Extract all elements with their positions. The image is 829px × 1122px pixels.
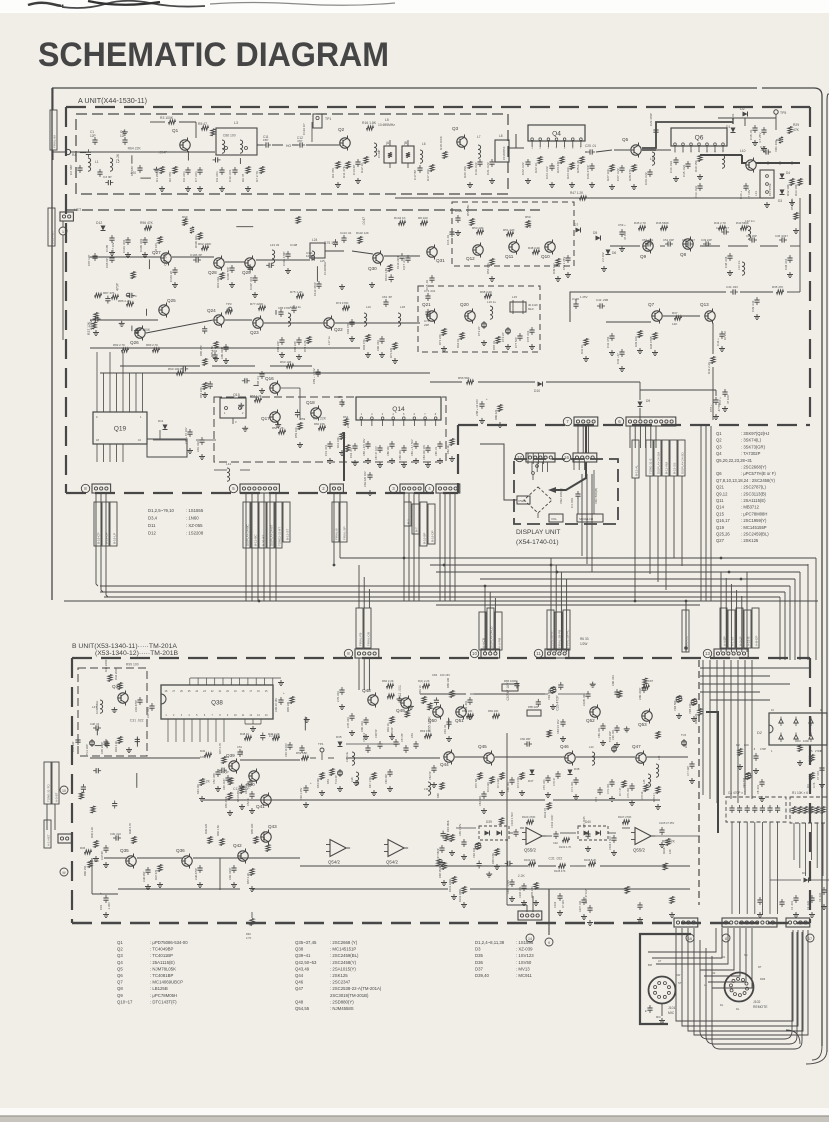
svg-text:.047: .047 [341, 400, 345, 406]
capacitor C87b .0047 [641, 687, 646, 689]
svg-text:Q44: Q44 [440, 762, 449, 767]
squelch grounds [351, 730, 353, 733]
transistor Q51 [456, 707, 466, 717]
vlabel FINAL-SP [340, 502, 347, 542]
capacitor C90b .001 [614, 727, 619, 729]
capacitor C40 .0047 [231, 867, 236, 869]
coil L2 [110, 158, 113, 171]
resistor R50 470K [228, 793, 232, 800]
svg-text:11: 11 [536, 651, 541, 656]
svg-text:C40 .033: C40 .033 [726, 285, 738, 289]
svg-text:R79 33: R79 33 [640, 791, 644, 800]
wire conn8 pin3 run [106, 493, 108, 597]
capacitor C48b .0047 [225, 777, 230, 779]
capacitor C86 100 [389, 443, 394, 445]
svg-text:Q1: Q1 [172, 128, 179, 133]
wire conn2 down [333, 493, 335, 565]
wire sig row [90, 757, 200, 759]
resistor R81 220 [203, 383, 207, 390]
capacitor C8 .001 [759, 781, 764, 783]
svg-text:C26 470P: C26 470P [556, 695, 560, 711]
B left lower clutter [112, 803, 117, 805]
resistor R53b [330, 769, 334, 776]
capacitor C43 47 [619, 351, 624, 353]
capacitor C46 30P [751, 237, 753, 242]
svg-text:47 10V: 47 10V [623, 231, 627, 240]
bus junction dots [484, 585, 487, 588]
svg-text:C29 470P: C29 470P [649, 113, 653, 126]
wire junction B [685, 601, 687, 652]
capacitor C51a 4.7 25V [761, 129, 766, 131]
svg-text:D6: D6 [612, 251, 616, 255]
test point TP5 [774, 110, 778, 114]
A unit dashed step [457, 425, 459, 493]
capacitor C63 220 16V [367, 474, 372, 476]
capacitor C41 .056 [609, 335, 614, 337]
svg-text:C104: C104 [553, 901, 557, 908]
coil L1 [88, 158, 91, 171]
resistor R82 2.7K [122, 348, 129, 352]
connector 7 [574, 417, 598, 426]
q39 grounds [217, 786, 219, 789]
capacitor C17 8P [417, 167, 422, 169]
bold supply right [706, 712, 718, 833]
vlabel A-1-ST [728, 610, 735, 648]
svg-text:L16 1u: L16 1u [487, 300, 496, 304]
svg-text:TP1: TP1 [318, 742, 324, 746]
diode D38 [568, 770, 573, 775]
svg-text:TC6: TC6 [681, 733, 687, 737]
svg-text:RA: RA [72, 153, 77, 157]
display bold wire [585, 426, 587, 453]
svg-text:DW: DW [676, 973, 681, 977]
resistor R37 12K [675, 316, 682, 320]
svg-text:R75 1.2K: R75 1.2K [290, 290, 303, 294]
svg-text:R33 10K: R33 10K [794, 184, 798, 196]
resistor R86 2.2K [127, 302, 134, 306]
resistor R81b 1K [422, 697, 426, 704]
RF shield dashed box [76, 114, 508, 194]
svg-text:C31 .022: C31 .022 [130, 719, 144, 723]
capacitor C106b .001 [521, 885, 526, 887]
diode D11 [163, 425, 168, 430]
svg-text:D37: D37 [528, 779, 534, 783]
svg-text:Q1: Q1 [716, 431, 722, 436]
svg-text:R60 15K: R60 15K [83, 865, 87, 876]
svg-text:TP1: TP1 [325, 117, 331, 121]
capacitor C69 18P [526, 741, 528, 746]
svg-text:Q5,20,22,23,28~31: Q5,20,22,23,28~31 [716, 458, 753, 463]
svg-text:.0047: .0047 [362, 217, 366, 226]
svg-text:R54 23K: R54 23K [486, 263, 490, 274]
capacitor C43 10 16V [278, 699, 283, 701]
transistor Q44 [444, 752, 454, 762]
resistor R1 22K [160, 167, 164, 174]
svg-text:C87: C87 [648, 679, 654, 683]
mixer transistor Q [746, 160, 756, 170]
wire conn5 bundle down [245, 493, 247, 601]
svg-text:C48 .01: C48 .01 [90, 722, 100, 726]
svg-text:Q35: Q35 [120, 848, 129, 853]
vlabel B-13-BC [251, 502, 258, 548]
resistor R49 [556, 259, 560, 266]
svg-text:C83 22P: C83 22P [293, 341, 297, 352]
svg-text:L14: L14 [226, 462, 231, 466]
capacitor C88b .001 [614, 691, 619, 693]
capacitor C48 .01 [95, 725, 97, 730]
capacitor C95b .0015 [585, 833, 590, 835]
regulator Q15 box [220, 398, 246, 418]
svg-text:2.2K: 2.2K [203, 779, 211, 783]
svg-text:C100 .001: C100 .001 [139, 238, 143, 252]
capacitor C40 .033 [732, 289, 734, 294]
svg-text:R27 100: R27 100 [606, 169, 610, 181]
svg-text:MHz: MHz [528, 307, 534, 311]
transistor Q8 row2 [683, 239, 693, 249]
resistor R41 220K [108, 675, 112, 682]
resistor R49 2.2K [273, 736, 280, 740]
svg-text:C2 .022: C2 .022 [806, 900, 810, 910]
svg-text:C69 18P: C69 18P [520, 737, 531, 741]
svg-text:C16 .01: C16 .01 [446, 234, 450, 245]
capacitor C107 .001 [252, 277, 257, 279]
svg-text:: μPC78M05H: : μPC78M05H [150, 993, 177, 998]
svg-text:R72 220: R72 220 [486, 782, 490, 792]
pot VR2 10K [476, 843, 480, 850]
svg-text:R98 150K: R98 150K [438, 866, 442, 878]
transistor Q45 [484, 753, 494, 763]
coil L47 [100, 700, 103, 713]
svg-text:Q7: Q7 [648, 302, 655, 307]
capacitor C29 .022 [647, 171, 652, 173]
svg-text:R92 100K: R92 100K [198, 242, 211, 246]
transistor Q50 [433, 707, 443, 717]
vlabel A3a [404, 502, 411, 526]
connector B HET [58, 834, 71, 843]
capacitor C79 .001 [339, 689, 344, 691]
svg-text:Q54/2: Q54/2 [386, 860, 399, 865]
svg-text:C33 .022: C33 .022 [694, 185, 698, 198]
connector B14 [722, 918, 777, 927]
resistor R79 33 [644, 785, 648, 792]
row3 clutter left [95, 293, 102, 297]
svg-text:VR2 10K: VR2 10K [472, 847, 476, 858]
svg-text:VR5 10K: VR5 10K [688, 703, 692, 714]
svg-text:DL: DL [720, 1003, 724, 1007]
svg-text:C86 100: C86 100 [386, 446, 390, 456]
IC Q38 [161, 685, 273, 719]
svg-text:D11: D11 [148, 523, 156, 528]
resistor R29 47K [788, 127, 792, 134]
routing bottom loops [676, 928, 793, 1021]
resistor R8 100 [421, 221, 428, 225]
capacitor C41b .001 [247, 781, 252, 783]
svg-text:L15: L15 [512, 295, 517, 299]
coil L11 CFY455E box [760, 170, 774, 198]
wire display verticals [527, 453, 529, 464]
svg-text:Q51: Q51 [455, 718, 464, 723]
svg-text:B-19-BP: B-19-BP [422, 533, 426, 544]
coil L37 3.3u [352, 752, 355, 765]
svg-text:R16 1.8K: R16 1.8K [362, 121, 377, 125]
resistor R60 10K [177, 371, 184, 375]
svg-text:Q38: Q38 [295, 947, 304, 952]
A unit dashed border bottom-left [66, 492, 458, 494]
routing lower long loops [700, 932, 792, 1039]
resistor R65 33 [496, 337, 500, 344]
svg-text:A-1-ST: A-1-ST [730, 636, 734, 646]
mic jack J101 outer [649, 977, 676, 1004]
resistor R38 4.7K [132, 837, 136, 844]
svg-text:Q19: Q19 [716, 525, 725, 530]
capacitor C80 .001 [363, 719, 368, 721]
svg-text:VR1 50K: VR1 50K [742, 777, 746, 788]
svg-text:2.2K: 2.2K [518, 874, 526, 878]
svg-text:: 2SC2538-22-A(TM-201A): : 2SC2538-22-A(TM-201A) [330, 986, 382, 991]
svg-text:Q2: Q2 [117, 947, 123, 952]
svg-text:A-3-LP: A-3-LP [738, 637, 742, 646]
vlabel DISPLAY-24-BT [267, 502, 274, 548]
svg-text:C61 .001: C61 .001 [324, 444, 328, 456]
svg-text:R110 47: R110 47 [543, 808, 547, 818]
coil L4 [374, 143, 377, 156]
ground d2 [754, 140, 756, 143]
svg-text:R37: R37 [672, 311, 678, 315]
resistor R35 2.2K [94, 841, 98, 848]
transistor Q30 [373, 253, 383, 263]
svg-text:R48 1K: R48 1K [240, 732, 249, 736]
row1 grounds [199, 186, 201, 189]
svg-text:C38 26P: C38 26P [142, 871, 146, 882]
bottom shadow line [0, 1115, 829, 1117]
capacitor C25 .01 [589, 149, 591, 154]
svg-text:DISPLAY-24-LO: DISPLAY-24-LO [489, 626, 493, 648]
capacitor C55 16P [365, 747, 370, 749]
svg-text:10: 10 [472, 651, 477, 656]
svg-text:Q43,49: Q43,49 [295, 966, 310, 971]
svg-text:BM: BM [648, 963, 652, 967]
capacitor C2b .022 [809, 897, 814, 899]
svg-text:2.2K: 2.2K [116, 153, 120, 161]
svg-text:: NJM78L05K: : NJM78L05K [150, 966, 176, 971]
stray R92 res [250, 919, 254, 926]
svg-text:Q41: Q41 [256, 804, 265, 809]
capacitor C84 22P [279, 339, 284, 341]
capacitor C38 26P [145, 869, 150, 871]
a4 grounds [481, 418, 483, 421]
svg-text:R64 22K: R64 22K [662, 840, 676, 844]
svg-text:D10: D10 [534, 389, 540, 393]
svg-text:R99: R99 [182, 215, 188, 219]
resistor R27 100 [610, 165, 614, 172]
capacitor C103b 1 50V [611, 837, 616, 839]
pot VR1b 50K [746, 773, 750, 780]
vlabel FINAL-OC [682, 610, 689, 652]
svg-text:R38 4.7K: R38 4.7K [128, 823, 132, 834]
svg-text:Q39~41: Q39~41 [295, 953, 311, 958]
connector B10 [481, 649, 500, 658]
svg-text:C6 .001: C6 .001 [182, 171, 186, 182]
svg-text:Q6: Q6 [716, 471, 722, 476]
svg-text:R69 470: R69 470 [362, 339, 366, 350]
vlabel A-B-OP [752, 608, 759, 648]
svg-text:R42 200K: R42 200K [114, 667, 118, 680]
svg-text:RT: RT [758, 965, 762, 969]
svg-text:TC5 20P: TC5 20P [608, 731, 612, 742]
svg-text:A-5-BT: A-5-BT [54, 792, 58, 802]
svg-text:R3 100K: R3 100K [160, 116, 174, 120]
svg-text:B-13-AL: B-13-AL [634, 465, 638, 476]
vlabel B-13-ST [283, 502, 290, 542]
svg-text:C89 .0047: C89 .0047 [638, 687, 642, 700]
resistor R58 1.2K lbl [279, 430, 286, 434]
connector B-29-HET label box [48, 208, 55, 246]
svg-text:B-29-HET: B-29-HET [50, 230, 54, 244]
transistor Q21 [427, 311, 437, 321]
capacitor C5 18P [137, 167, 142, 169]
svg-text:C99 1 50V: C99 1 50V [458, 823, 462, 836]
svg-text:C102: C102 [377, 150, 381, 158]
pot VR4 50K [677, 696, 681, 703]
svg-text:8: 8 [725, 937, 727, 941]
svg-text:D2: D2 [757, 731, 762, 735]
svg-text:R58 68K: R58 68K [466, 205, 470, 216]
resistor R43 560K [741, 226, 748, 230]
transistor Q24 [214, 315, 224, 325]
circled node 9m [545, 938, 553, 946]
wire top right bus [718, 117, 776, 119]
svg-text:L9: L9 [650, 157, 654, 161]
svg-text:2704: 2704 [815, 749, 821, 753]
resistor R77 47 [622, 781, 626, 788]
svg-text:R103 4.7K: R103 4.7K [559, 845, 572, 849]
resistor R20 15K [468, 162, 472, 169]
svg-text:(X53-1340-12)·····TM-201B: (X53-1340-12)·····TM-201B [95, 650, 179, 657]
svg-text:L37 3.3u: L37 3.3u [345, 751, 349, 762]
display C4 .001 [575, 493, 580, 495]
svg-text:D4: D4 [786, 171, 790, 175]
transistor Q29 [245, 258, 255, 268]
svg-text:R24 100: R24 100 [566, 167, 570, 179]
diode D3 [780, 190, 785, 195]
transistor Q11 [509, 242, 519, 252]
svg-text:C22 .022: C22 .022 [521, 162, 525, 175]
svg-text:VR4 50K: VR4 50K [673, 700, 677, 711]
svg-text:R84 10K: R84 10K [488, 709, 499, 713]
svg-text:R47 2.7K: R47 2.7K [218, 743, 222, 754]
vlabel A-6-PM [495, 612, 502, 650]
svg-text:L11: L11 [754, 191, 758, 196]
svg-text:L38: L38 [350, 777, 354, 782]
capacitor C61b [413, 743, 418, 745]
svg-text:C31 .022: C31 .022 [549, 857, 563, 861]
row3 wire2 [90, 347, 360, 349]
svg-text:R9 47K: R9 47K [331, 167, 335, 178]
wire conn3 down [403, 493, 405, 601]
svg-text:Q6: Q6 [695, 134, 704, 141]
svg-text:A-4-CB: A-4-CB [481, 638, 485, 648]
svg-text:47 16V: 47 16V [726, 395, 730, 404]
svg-text:Q23: Q23 [250, 330, 259, 335]
display PWR box [517, 496, 530, 504]
svg-text:C108: C108 [290, 243, 298, 247]
capacitor C44 470P [137, 699, 142, 701]
transistor Q48 [368, 695, 378, 705]
svg-text:D3: D3 [475, 947, 481, 952]
Q14 bold supply [343, 432, 345, 481]
wire to conn13 [720, 572, 722, 652]
svg-text:C78 .001: C78 .001 [526, 330, 530, 342]
svg-text:R108: R108 [662, 847, 666, 854]
capacitor C39 .022 [115, 835, 117, 840]
svg-text:Q4: Q4 [716, 451, 722, 456]
remote jack pins [746, 987, 749, 990]
IC Q4 [528, 125, 585, 141]
svg-text:C106 .001: C106 .001 [519, 886, 522, 898]
svg-text:C3 3P: C3 3P [103, 175, 112, 179]
transistor Q17 [270, 412, 280, 422]
capacitor C97 560P [439, 847, 444, 849]
vlabel DISPLAY-24-SM [654, 440, 661, 476]
vlabel A-3-LP [736, 608, 743, 648]
wire row3 right [606, 321, 651, 323]
resistor R25 6.4K [580, 157, 584, 164]
svg-text:A UNIT(X44-1530-11): A UNIT(X44-1530-11) [78, 96, 147, 105]
capacitor C9 .001 [219, 169, 224, 171]
svg-text:C44 +: C44 + [716, 338, 720, 346]
capacitor C52 .001 [647, 241, 649, 246]
svg-text:SCHEMATIC DIAGRAM: SCHEMATIC DIAGRAM [38, 36, 389, 74]
svg-text:-30: -30 [760, 148, 765, 152]
svg-text:C27 .022: C27 .022 [616, 168, 620, 181]
svg-text:C9 .001: C9 .001 [215, 171, 219, 182]
svg-text:Q3: Q3 [117, 953, 123, 958]
svg-text:C55 3.3: C55 3.3 [362, 732, 366, 742]
capacitor C78 .001 [529, 329, 534, 331]
wire b-left vert [91, 858, 93, 894]
svg-text:100P: 100P [306, 254, 313, 258]
svg-text:(X54-1740-01): (X54-1740-01) [516, 539, 559, 546]
resistor R59 100 [298, 423, 302, 430]
svg-text:ST: ST [678, 981, 682, 985]
svg-text:D35: D35 [475, 953, 483, 958]
right page frame inner [827, 94, 829, 1052]
svg-text:D3: D3 [778, 199, 782, 203]
svg-text:+: + [310, 781, 312, 785]
svg-text:C77 22P: C77 22P [686, 766, 690, 776]
wire row2 upper [395, 197, 770, 199]
capacitor C120 1000P [455, 217, 460, 219]
svg-text:C25 .01: C25 .01 [585, 144, 596, 148]
resistor R39 100 [638, 331, 642, 338]
IF shield dashed line [66, 209, 540, 211]
svg-text:: MC145155P: : MC145155P [741, 525, 767, 530]
svg-text:C68 + 470 16V: C68 + 470 16V [362, 438, 366, 456]
capacitor C49 22P [705, 241, 707, 246]
ground row1 a [161, 186, 163, 189]
transistor Q43 [261, 832, 271, 842]
svg-text:TC2 4P: TC2 4P [334, 775, 338, 784]
svg-text:R2 47K: R2 47K [168, 171, 172, 182]
svg-text:R78 4.7: R78 4.7 [652, 792, 656, 802]
diode D37 [530, 770, 535, 775]
svg-text:R23 330: R23 330 [556, 161, 560, 173]
resistor VR3 wire [470, 693, 548, 695]
svg-text:TP3: TP3 [226, 302, 232, 306]
resistor R66b [440, 783, 444, 790]
capacitor C59 6P [393, 741, 398, 743]
svg-text:: 2SC2787(L): : 2SC2787(L) [741, 485, 767, 490]
